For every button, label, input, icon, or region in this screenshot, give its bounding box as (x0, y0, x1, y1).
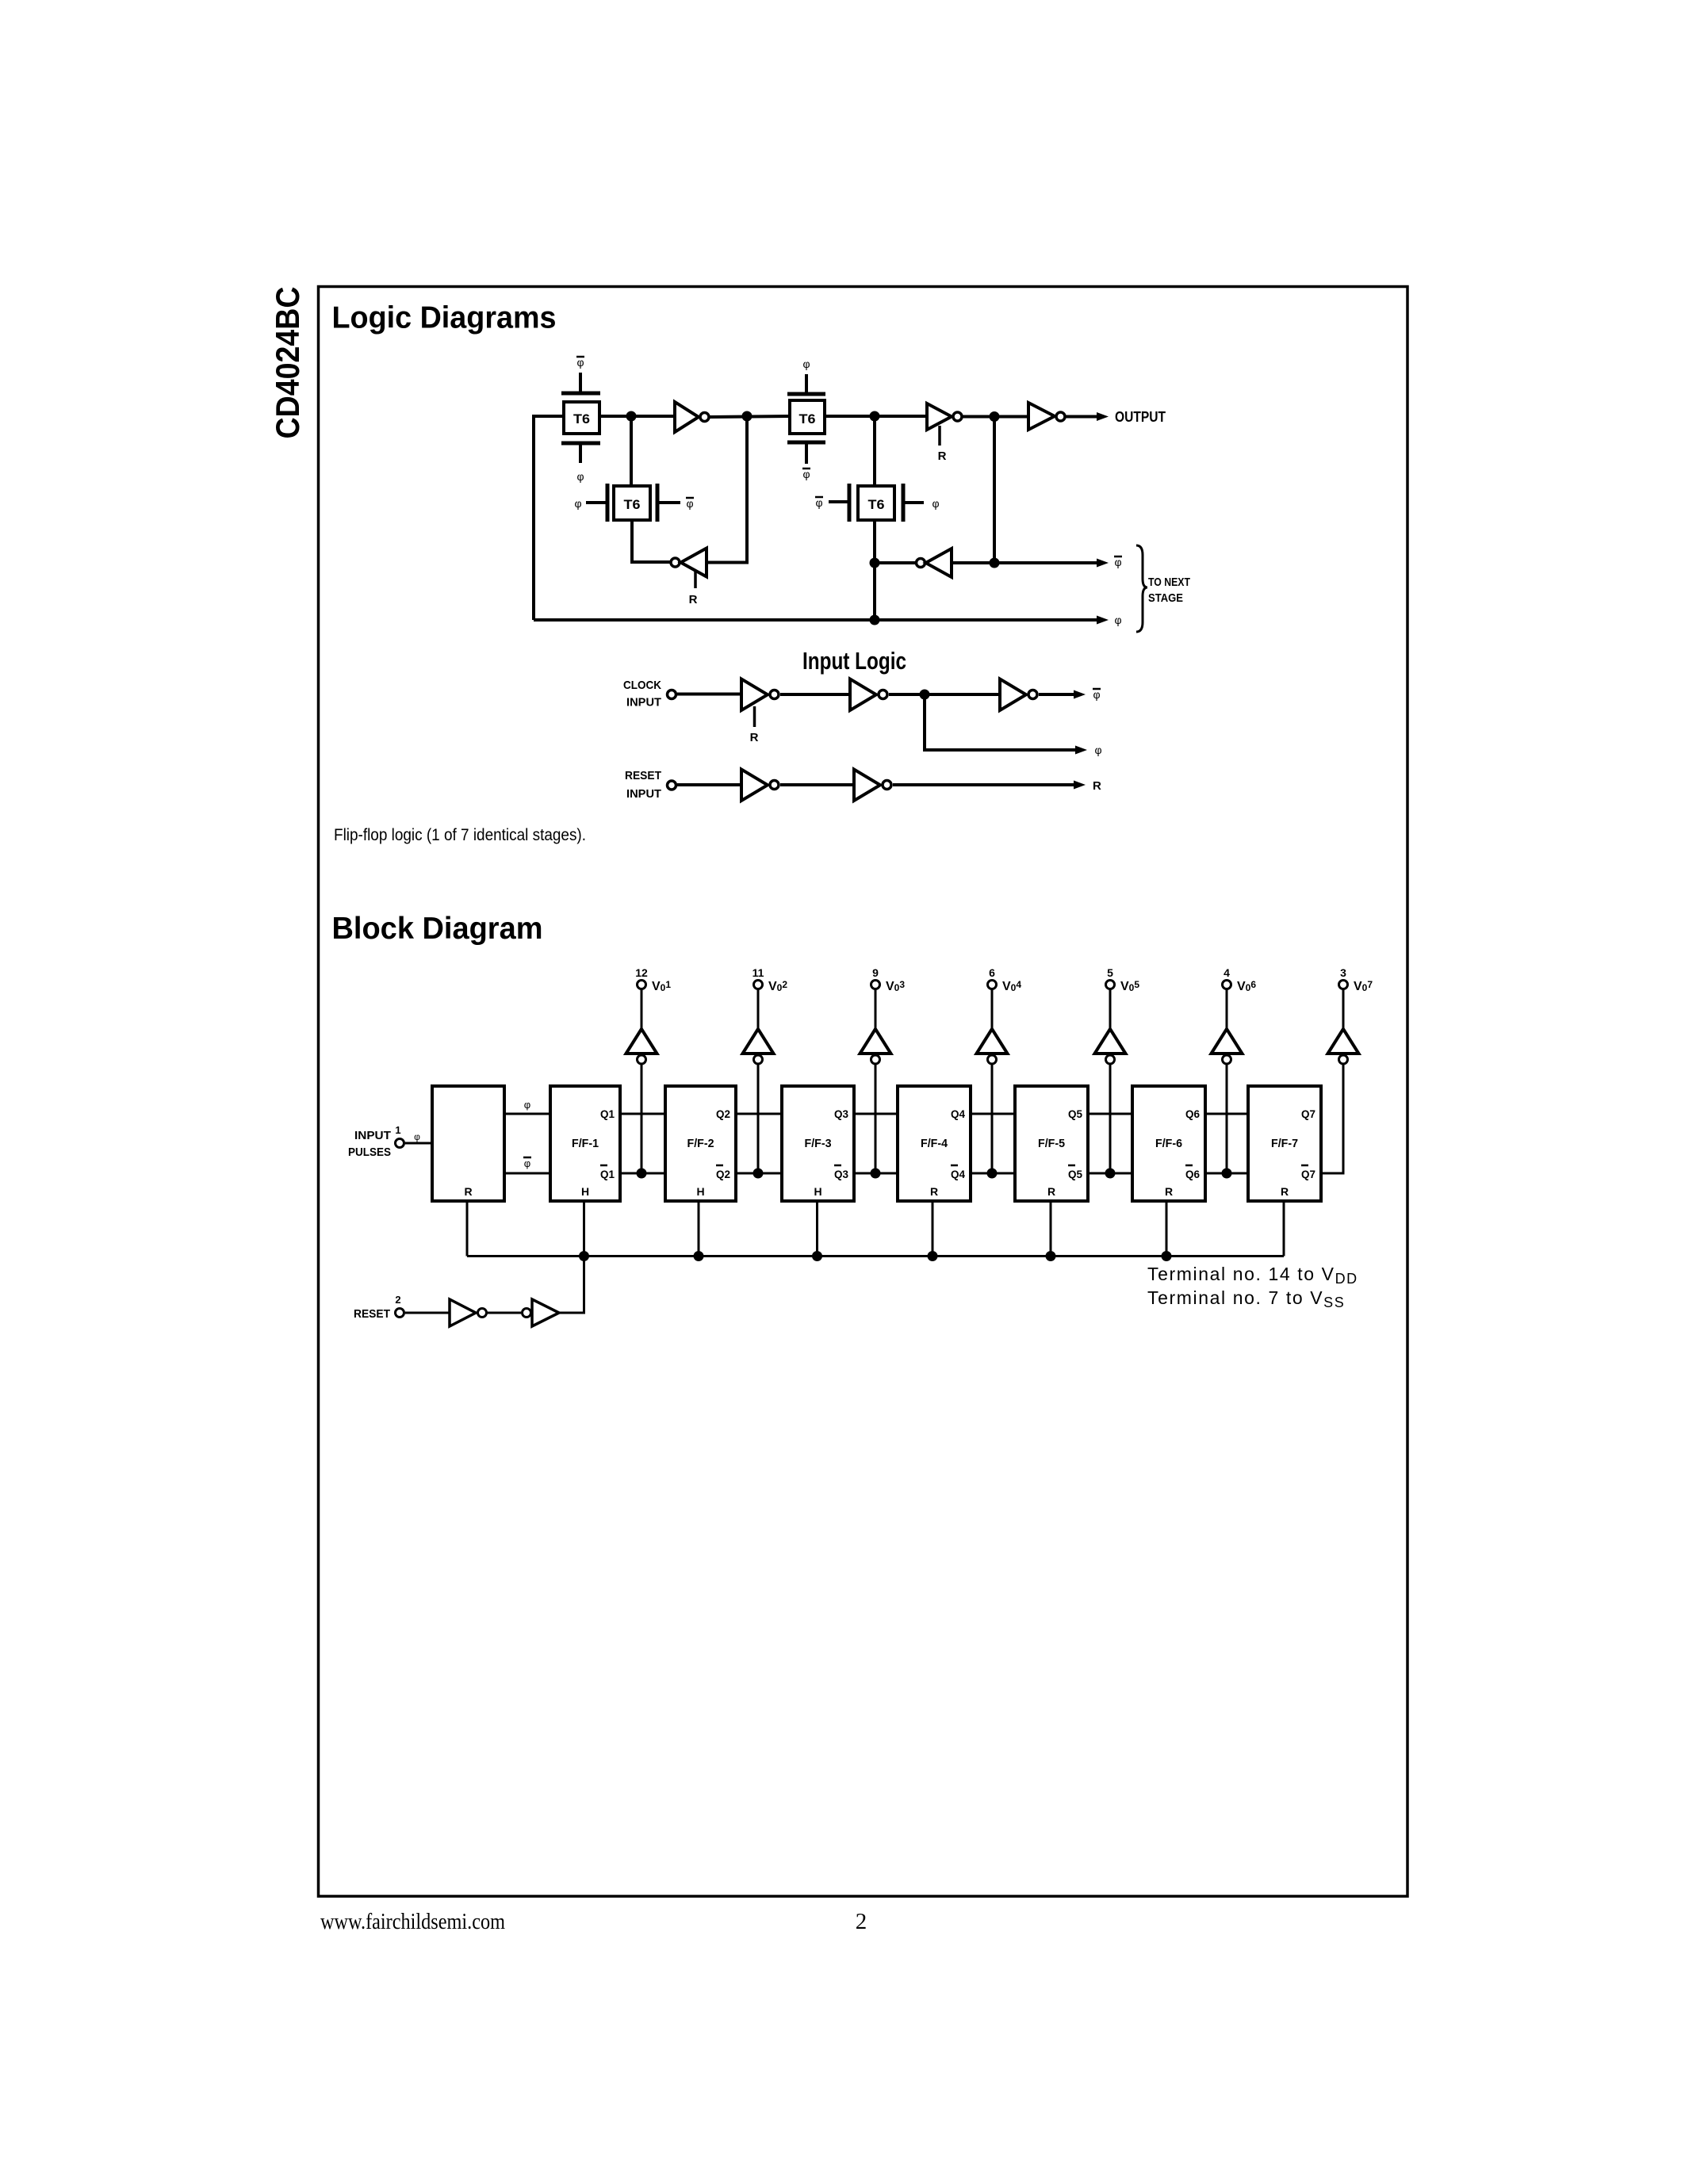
inverter stage2 C (left pointing) (917, 549, 952, 577)
node Q1bar tap (637, 1168, 647, 1179)
node Q2bar tap (753, 1168, 764, 1179)
label CLOCK INPUT (623, 679, 661, 710)
svg-text:STAGE: STAGE (1148, 591, 1183, 605)
wire to phi-bar arrow (1039, 690, 1086, 699)
svg-text:F/F-2: F/F-2 (687, 1137, 714, 1150)
node clock phi (920, 690, 930, 700)
svg-text:11: 11 (753, 966, 764, 979)
wire stage2 node down to pass transistor (873, 416, 876, 488)
svg-text:RESET: RESET (625, 769, 661, 782)
node reset bus F4 (928, 1251, 938, 1261)
terminal V07 pin 3 (1339, 966, 1373, 993)
svg-text:CLOCK: CLOCK (623, 679, 661, 692)
svg-text:T6: T6 (624, 497, 641, 512)
vertical part number CD4024BC (269, 287, 306, 439)
flip-flop F/F-1 (550, 1086, 620, 1201)
svg-text:φ: φ (576, 470, 584, 483)
wire reset stub F7 (1283, 1201, 1285, 1256)
wire buffer 6 tap (1226, 1064, 1228, 1173)
svg-text:INPUT: INPUT (626, 787, 661, 801)
svg-text:F/F-1: F/F-1 (572, 1137, 599, 1150)
svg-text:R: R (689, 593, 698, 606)
node stage2 Q (870, 411, 880, 422)
wire reset stub F5 (1050, 1201, 1052, 1256)
wire clock to inverter (677, 693, 741, 696)
gate phi-bar bottom of T6 stage2 (787, 442, 825, 480)
page border frame (319, 287, 1408, 1897)
svg-text:R: R (1281, 1185, 1289, 1198)
flip-flop F/F-7 (1248, 1086, 1321, 1201)
svg-text:F/F-6: F/F-6 (1155, 1137, 1182, 1150)
output buffer 7 (1328, 989, 1359, 1064)
wire node down and right to phi arrow (925, 694, 1087, 755)
node Q5bar tap (1105, 1168, 1116, 1179)
node stage1 Qbar (742, 411, 753, 422)
svg-text:Input Logic: Input Logic (802, 647, 906, 675)
wire Q1bar to next stage (620, 1172, 665, 1175)
wire Q5bar to next stage (1088, 1172, 1132, 1175)
inverter stage2 B with reset (927, 404, 962, 463)
wire phi-bar input left (stage2 pass) (815, 496, 848, 509)
inverter clock 1 with reset (741, 679, 779, 745)
wire reset to inverter (405, 1312, 450, 1314)
svg-text:H: H (814, 1185, 821, 1198)
svg-text:INPUT: INPUT (626, 696, 661, 710)
wire Q3bar to next stage (854, 1172, 898, 1175)
svg-text:Q7: Q7 (1301, 1107, 1315, 1120)
svg-text:Q2: Q2 (716, 1107, 730, 1120)
wire reset stub F1 (583, 1201, 585, 1256)
svg-text:R: R (938, 449, 947, 463)
svg-text:PULSES: PULSES (348, 1146, 391, 1159)
wire feedback left loop (534, 416, 564, 620)
wire reset stub F2 (698, 1201, 700, 1256)
wire Q2bar to next stage (736, 1172, 782, 1175)
svg-text:φ: φ (802, 468, 810, 480)
wire buffer 2 tap (757, 1064, 760, 1173)
wire buffer 3 tap (875, 1064, 877, 1173)
svg-text:φ: φ (686, 497, 693, 510)
svg-text:φ: φ (574, 497, 581, 510)
svg-text:φ: φ (932, 497, 939, 510)
terminal V03 pin 9 (871, 966, 906, 993)
svg-text:φ: φ (414, 1131, 420, 1142)
inverter reset 1 (741, 770, 779, 801)
output buffer 1 (626, 989, 657, 1064)
brace to next stage (1136, 545, 1147, 632)
svg-text:φ: φ (1093, 688, 1100, 701)
label RESET INPUT (625, 769, 661, 801)
svg-text:F/F-4: F/F-4 (921, 1137, 948, 1150)
output buffer 5 (1095, 989, 1126, 1064)
node reset bus F1 (579, 1251, 589, 1261)
inverter reset 2 (854, 770, 891, 801)
node qbar branch (990, 558, 1000, 568)
wire Q2 to next stage (736, 1113, 782, 1115)
gate phi-bar top of T6 stage1 (561, 356, 600, 393)
svg-text:Q6: Q6 (1185, 1107, 1200, 1120)
wire T6 stage2 out (825, 415, 927, 418)
wire reset to inverter (677, 783, 741, 786)
svg-text:RESET: RESET (354, 1307, 390, 1321)
flip-flop F/F-3 (782, 1086, 854, 1201)
terminal clock input (668, 690, 676, 699)
wire Q4bar to next stage (971, 1172, 1015, 1175)
wire pass transistor down (632, 520, 670, 562)
svg-text:φ: φ (524, 1157, 530, 1169)
svg-text:F/F-5: F/F-5 (1038, 1137, 1065, 1150)
svg-text:Terminal no. 7 to VSS: Terminal no. 7 to VSS (1147, 1287, 1345, 1310)
svg-text:T6: T6 (868, 497, 885, 512)
node reset bus F5 (1046, 1251, 1056, 1261)
wire stage2 pass down (873, 520, 876, 563)
terminal input pulses (396, 1139, 404, 1148)
wire reset bus (467, 1255, 1284, 1257)
svg-text:OUTPUT: OUTPUT (1115, 409, 1166, 425)
wire inverter 2 out (889, 693, 1000, 696)
svg-text:φ: φ (524, 1099, 530, 1111)
terminal V04 pin 6 (988, 966, 1022, 993)
svg-text:12: 12 (635, 966, 648, 979)
node Q6bar tap (1222, 1168, 1232, 1179)
wire phi input right (stage2 pass) (905, 497, 940, 510)
inverter stage1 R (left pointing) (671, 549, 707, 607)
inverter reset buffer 1 (450, 1299, 487, 1326)
svg-text:F/F-7: F/F-7 (1271, 1137, 1298, 1150)
svg-text:Logic Diagrams: Logic Diagrams (332, 301, 557, 335)
output buffer 6 (1212, 989, 1243, 1064)
svg-text:Q1: Q1 (600, 1168, 615, 1180)
svg-text:R: R (1165, 1185, 1173, 1198)
svg-text:5: 5 (1107, 966, 1113, 979)
wire to inverter 2 (780, 693, 850, 696)
svg-text:www.fairchildsemi.com: www.fairchildsemi.com (320, 1910, 505, 1934)
wire input pulses to block (405, 1142, 432, 1145)
wire node to inverter C (875, 561, 916, 564)
wire stage2 down to phi bus (873, 563, 876, 620)
svg-text:φ: φ (802, 358, 810, 370)
flip-flop F/F-6 (1132, 1086, 1205, 1201)
svg-text:R: R (930, 1185, 938, 1198)
svg-text:INPUT: INPUT (354, 1129, 391, 1142)
label INPUT PULSES (348, 1129, 391, 1159)
inverter clock 3 (1000, 679, 1037, 711)
svg-text:F/F-3: F/F-3 (805, 1137, 832, 1150)
svg-text:R: R (750, 731, 759, 744)
wire reset stub F3 (816, 1201, 818, 1256)
svg-text:Q3: Q3 (834, 1107, 848, 1120)
node stage1 Q (626, 411, 637, 422)
gate phi bottom of T6 stage1 (561, 443, 600, 483)
wire phi-bar to FF1 (504, 1157, 550, 1173)
svg-text:Q6: Q6 (1185, 1168, 1200, 1180)
inverter stage1 A (675, 402, 709, 432)
wire Q5 to next stage (1088, 1113, 1132, 1115)
svg-text:4: 4 (1224, 966, 1230, 979)
wire phi to FF1 (504, 1099, 550, 1114)
svg-text:Q1: Q1 (600, 1107, 615, 1120)
flip-flop F/F-4 (898, 1086, 971, 1201)
svg-text:R: R (464, 1185, 472, 1198)
terminal V01 pin 12 (635, 966, 671, 993)
flip-flop F/F-5 (1015, 1086, 1088, 1201)
wire reset stub F4 (932, 1201, 934, 1256)
svg-text:φ: φ (1114, 614, 1121, 626)
input logic block (432, 1086, 504, 1201)
svg-text:Flip-flop logic (1 of 7 identi: Flip-flop logic (1 of 7 identical stages… (334, 826, 586, 844)
flip-flop F/F-2 (665, 1086, 736, 1201)
wire Q6 to next stage (1205, 1113, 1248, 1115)
node reset bus F6 (1162, 1251, 1172, 1261)
transistor T6 (stage1 pass) (607, 484, 657, 522)
svg-text:φ: φ (576, 356, 584, 369)
node reset bus F2 (694, 1251, 704, 1261)
svg-text:9: 9 (872, 966, 879, 979)
wire reset stub F6 (1166, 1201, 1168, 1256)
wire phi bus bottom (534, 616, 1109, 625)
svg-text:Q2: Q2 (716, 1168, 730, 1180)
wire to R arrow (893, 781, 1086, 790)
node Q3bar tap (871, 1168, 881, 1179)
wire between reset inverters (487, 1312, 521, 1314)
svg-text:2: 2 (856, 1909, 867, 1934)
wire buffer 4 tap (991, 1064, 994, 1173)
svg-text:H: H (581, 1185, 589, 1198)
wire inverter A out (710, 416, 790, 417)
terminal V05 pin 5 (1106, 966, 1140, 993)
wire inverter R to Qbar node (707, 416, 747, 563)
svg-text:Q4: Q4 (951, 1107, 965, 1120)
svg-text:φ: φ (815, 496, 822, 509)
terminal V02 pin 11 (753, 966, 788, 993)
wire reset chain to bus (559, 1256, 584, 1314)
wire Q7bar to output buffer (1321, 1064, 1343, 1173)
terminal reset input (668, 781, 676, 790)
wire buffer 1 tap (641, 1064, 643, 1173)
svg-text:T6: T6 (573, 411, 590, 426)
output buffer 2 (743, 989, 774, 1064)
node stage2 output (990, 411, 1000, 422)
svg-text:φ: φ (1114, 556, 1121, 568)
transistor T6 (stage1 top) (564, 402, 599, 434)
wire inverter C to next stage qbar arrow (952, 559, 1109, 568)
svg-text:T6: T6 (799, 411, 816, 426)
node Q4bar tap (987, 1168, 998, 1179)
inverter stage2 output buffer (1028, 403, 1065, 430)
svg-text:3: 3 (1340, 966, 1346, 979)
svg-text:CD4024BC: CD4024BC (269, 287, 306, 439)
svg-text:2: 2 (395, 1294, 400, 1306)
wire to OUTPUT arrow (1066, 412, 1109, 421)
inverter clock 2 (850, 679, 887, 711)
terminal V06 pin 4 (1223, 966, 1257, 993)
wire reset stub IN (466, 1201, 469, 1256)
svg-text:Terminal no. 14 to VDD: Terminal no. 14 to VDD (1147, 1264, 1358, 1287)
svg-text:H: H (696, 1185, 704, 1198)
wire qbar branch up (993, 417, 996, 564)
node reset bus F3 (812, 1251, 822, 1261)
node phi bus (870, 615, 880, 625)
wire phi input left (stage1 pass) (574, 497, 606, 510)
svg-text:6: 6 (989, 966, 995, 979)
svg-text:Q4: Q4 (951, 1168, 965, 1180)
label TO NEXT STAGE (1148, 576, 1190, 605)
gate phi top of T6 stage2 (787, 358, 825, 394)
wire Q3 to next stage (854, 1113, 898, 1115)
wire to inverter reset 2 (780, 783, 854, 786)
svg-text:Q7: Q7 (1301, 1168, 1315, 1180)
svg-text:R: R (1047, 1185, 1055, 1198)
wire buffer 5 tap (1109, 1064, 1112, 1173)
output buffer 3 (860, 989, 891, 1064)
transistor T6 (stage2 top) (790, 400, 825, 434)
node stage2 Qbar lower (870, 558, 880, 568)
wire inverter B out (963, 415, 1029, 419)
svg-text:φ: φ (1094, 744, 1101, 756)
wire T6 to inverter (599, 415, 675, 418)
svg-text:Q5: Q5 (1068, 1168, 1082, 1180)
svg-text:TO NEXT: TO NEXT (1148, 576, 1190, 589)
wire Q1 to next stage (620, 1113, 665, 1115)
svg-text:R: R (1093, 779, 1101, 793)
wire Q4 to next stage (971, 1113, 1015, 1115)
output buffer 4 (977, 989, 1008, 1064)
svg-text:Block Diagram: Block Diagram (332, 912, 543, 946)
svg-text:1: 1 (395, 1124, 400, 1136)
svg-text:Q3: Q3 (834, 1168, 848, 1180)
inverter reset buffer 2 (523, 1299, 560, 1326)
wire node down to pass transistor (630, 416, 633, 488)
svg-text:Q5: Q5 (1068, 1107, 1082, 1120)
wire phi-bar input right (stage1 pass) (659, 497, 694, 510)
terminal reset (396, 1309, 404, 1318)
wire Q6bar to next stage (1205, 1172, 1248, 1175)
transistor T6 (stage2 pass) (849, 484, 903, 522)
